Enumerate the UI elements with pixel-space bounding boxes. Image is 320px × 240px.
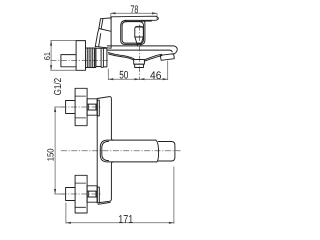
top union washer bbox=[97, 100, 99, 116]
svg-text:46: 46 bbox=[150, 70, 161, 82]
top union escutcheon bbox=[75, 88, 87, 125]
body left cap inner line bbox=[102, 141, 109, 160]
svg-text:61: 61 bbox=[42, 52, 52, 61]
union inlet centerline bbox=[51, 60, 109, 62]
top union hex nut bbox=[87, 99, 97, 115]
top escutcheon step lines bbox=[75, 96, 86, 118]
handle front blade outline bbox=[95, 18, 111, 48]
handle bar inner bottom line bbox=[125, 20, 151, 23]
svg-text:G1/2: G1/2 bbox=[53, 78, 64, 96]
dome top center tick bbox=[136, 26, 143, 28]
dim 171 extension lines bbox=[66, 167, 174, 224]
blade inner lines bbox=[99, 19, 103, 47]
arrows dim 61 bbox=[50, 41, 52, 71]
inlet nut bands bbox=[96, 48, 107, 67]
bottom escutcheon step lines bbox=[75, 183, 86, 207]
bottom union hex nut bbox=[87, 186, 97, 202]
spout underside wave right bbox=[144, 54, 161, 61]
handle front blade right edge bbox=[110, 17, 112, 48]
wall pipe bbox=[61, 55, 76, 67]
dim 171 line bbox=[66, 222, 174, 224]
back plate bottom chamfer line bbox=[98, 202, 110, 204]
outlet aerator ring bbox=[135, 64, 144, 67]
blade kink line bbox=[99, 29, 111, 32]
dim 50/46 line bbox=[108, 78, 167, 80]
handle lever bar bbox=[111, 16, 158, 20]
bottom union centerline bbox=[61, 193, 103, 195]
spout mouth bbox=[160, 54, 174, 61]
spout arm lower edge bbox=[107, 50, 172, 52]
dim 61 line bbox=[50, 41, 52, 71]
dim 50 extension line (wall side) bbox=[107, 69, 109, 80]
bottom union escutcheon bbox=[75, 175, 87, 213]
arrows dim 78 bbox=[111, 12, 158, 14]
body cube inner bbox=[122, 22, 143, 43]
svg-text:171: 171 bbox=[118, 214, 133, 226]
dome taper bbox=[135, 37, 144, 46]
svg-text:50: 50 bbox=[119, 70, 128, 82]
svg-text:150: 150 bbox=[46, 149, 56, 162]
end cap bbox=[158, 142, 175, 162]
bottom union washer bbox=[97, 187, 99, 203]
thread section bbox=[86, 48, 96, 68]
body cube outer bbox=[121, 20, 145, 44]
cartridge dome bbox=[135, 26, 144, 37]
body centerline bbox=[61, 150, 181, 152]
arrows dim 150 bbox=[54, 107, 56, 194]
dim 150 line bbox=[54, 107, 56, 194]
outlet block bbox=[134, 60, 145, 65]
escutcheon block bbox=[76, 41, 85, 71]
main body bar bbox=[100, 140, 157, 162]
spout underside wave bbox=[108, 53, 134, 60]
back plate bbox=[97, 97, 113, 203]
body neck arc bbox=[156, 140, 159, 162]
top union wall pipe bbox=[66, 101, 76, 114]
dim 46 extension line (spout end) bbox=[167, 61, 169, 80]
bottom union wall pipe bbox=[66, 188, 76, 201]
spout arm top edge with hook tip bbox=[107, 46, 177, 54]
centerline of cartridge / outlet bbox=[139, 25, 141, 80]
dim 78 extension lines bbox=[111, 13, 157, 20]
top union centerline bbox=[61, 106, 103, 108]
svg-text:78: 78 bbox=[130, 4, 138, 16]
arrows dim 171 bbox=[66, 222, 174, 224]
dim 61 extension lines bbox=[50, 41, 76, 71]
arrows dim 50/46 bbox=[108, 78, 167, 80]
thread hatching bbox=[87, 48, 94, 68]
dim 78 line bbox=[111, 12, 158, 14]
dim 150 extension lines bbox=[54, 107, 64, 194]
